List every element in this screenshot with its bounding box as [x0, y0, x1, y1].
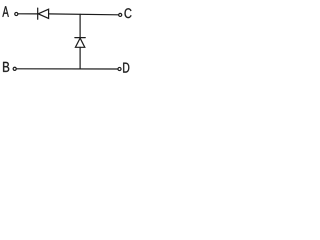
label A	[2, 6, 8, 16]
wire: vertical branch lower segment	[79, 47, 81, 69]
diode D2 cathode bar	[75, 37, 85, 39]
label D	[123, 63, 129, 73]
diode D1 cathode bar	[37, 8, 39, 19]
wire: vertical branch upper segment	[79, 14, 81, 38]
node B terminal circle	[13, 67, 16, 70]
node A terminal circle	[15, 12, 18, 15]
diode D2 triangle (pointing up)	[75, 38, 84, 47]
node C terminal circle	[119, 13, 122, 16]
node D terminal circle	[118, 67, 121, 70]
wire B to node D	[17, 68, 118, 70]
wire A to diode D1	[18, 13, 37, 15]
diode D1 triangle (pointing left)	[38, 9, 48, 18]
wire diode D1 to node C	[49, 13, 119, 16]
label C	[125, 8, 132, 18]
label B	[3, 62, 9, 72]
